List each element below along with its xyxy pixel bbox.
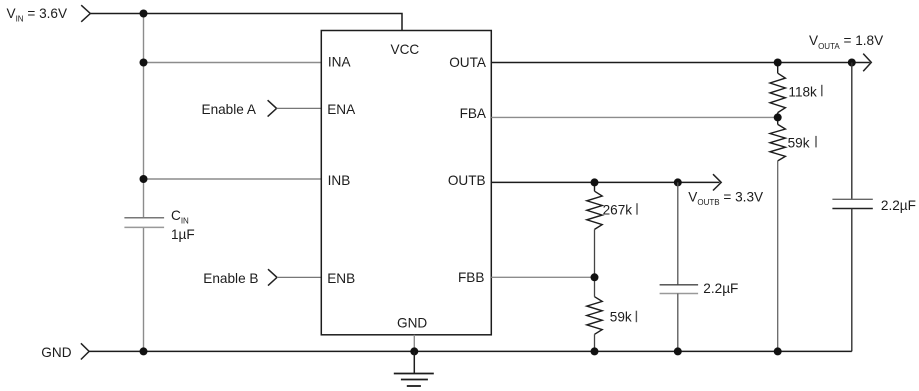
node VOUTA arrow (863, 54, 871, 72)
svg-text:1µF: 1µF (171, 227, 195, 242)
wire OUTB (491, 181, 719, 183)
junction rail/R4 (591, 347, 599, 355)
wire ground rail (89, 350, 852, 352)
node Enable B arrow (268, 269, 277, 285)
node R1 value bar (821, 85, 823, 97)
wire left input rail (143, 14, 145, 352)
svg-text:118k: 118k (788, 84, 817, 99)
junction INB (140, 175, 148, 183)
wire ENB (277, 276, 321, 278)
ground symbol (394, 351, 434, 386)
junction rail/R2 (774, 347, 782, 355)
node R4 value bar (635, 311, 637, 323)
op-amp U1 regulator box (321, 31, 491, 335)
node Enable A arrow (268, 100, 277, 116)
wire INB (144, 178, 322, 180)
svg-text:INB: INB (328, 173, 351, 188)
junction rail/left (140, 347, 148, 355)
junction OUTB/R3 (591, 178, 599, 186)
wire INA (144, 62, 322, 64)
junction VIN/rail (140, 10, 148, 18)
resistor R2 59k (770, 117, 785, 160)
wire R2 to ground rail (777, 161, 779, 352)
node VIN input arrow (81, 5, 90, 22)
svg-text:OUTB: OUTB (448, 173, 486, 188)
node VOUTB arrow (713, 174, 721, 190)
wire FBB (491, 276, 594, 278)
wire FBA (491, 116, 777, 118)
junction rail/C1 (674, 347, 682, 355)
svg-text:VCC: VCC (391, 42, 420, 57)
svg-text:267k: 267k (603, 203, 633, 218)
svg-text:ENA: ENA (327, 102, 356, 117)
capacitor CIN (124, 218, 164, 228)
wire GND pin lead (413, 335, 415, 352)
svg-text:ENB: ENB (327, 271, 355, 286)
svg-text:FBB: FBB (458, 270, 484, 285)
svg-text:FBA: FBA (460, 106, 487, 121)
junction INA (140, 59, 148, 67)
junction OUTA/C852 (848, 59, 856, 67)
capacitor C1 2.2uF mid (660, 182, 699, 351)
node R2 value bar (815, 136, 817, 148)
svg-text:GND: GND (41, 345, 71, 360)
wire OUTA (491, 62, 870, 64)
svg-text:59k: 59k (610, 309, 632, 324)
junction FBA/R1/R2 (774, 113, 782, 121)
resistor R3 267k (587, 182, 602, 277)
node GND input arrow (81, 343, 89, 359)
svg-text:INA: INA (328, 55, 352, 70)
svg-text:Enable A: Enable A (202, 102, 257, 117)
junction FBB/R3/R4 (591, 273, 599, 281)
svg-text:Enable B: Enable B (203, 271, 258, 286)
node R3 value bar (636, 203, 638, 215)
junction OUTA/R1 (774, 59, 782, 67)
junction OUTB/C1 (674, 178, 682, 186)
svg-text:GND: GND (397, 315, 427, 330)
svg-text:2.2µF: 2.2µF (881, 198, 916, 213)
resistor R4 59k (587, 277, 602, 351)
svg-text:2.2µF: 2.2µF (703, 281, 738, 296)
resistor R1 118k (770, 63, 785, 118)
wire VIN top rail (90, 14, 402, 31)
junction rail/GND pin (410, 347, 418, 355)
capacitor C2 2.2uF right (832, 63, 872, 352)
wire ENA (277, 107, 322, 109)
svg-text:59k: 59k (788, 135, 810, 150)
svg-text:OUTA: OUTA (449, 55, 487, 70)
